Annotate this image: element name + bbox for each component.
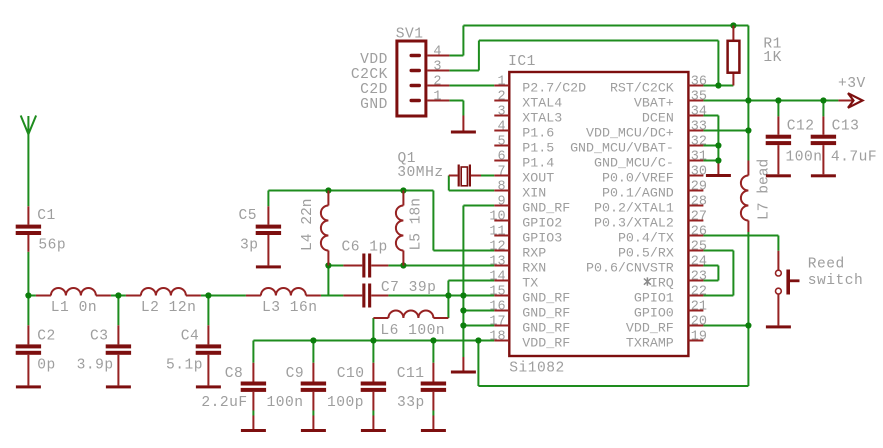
svg-text:TX: TX xyxy=(522,275,538,290)
svg-text:C2CK: C2CK xyxy=(351,67,388,83)
svg-text:3p: 3p xyxy=(240,238,259,254)
svg-text:GPIO2: GPIO2 xyxy=(522,215,562,230)
svg-text:2: 2 xyxy=(433,75,441,90)
svg-text:C13: C13 xyxy=(832,119,860,135)
svg-text:L4 22n: L4 22n xyxy=(300,198,316,251)
svg-text:16: 16 xyxy=(489,300,505,315)
svg-text:L2 12n: L2 12n xyxy=(141,300,197,316)
svg-text:DCEN: DCEN xyxy=(642,110,674,125)
svg-text:3: 3 xyxy=(433,60,441,75)
svg-text:0p: 0p xyxy=(37,358,56,374)
svg-text:23: 23 xyxy=(691,270,707,285)
svg-text:15: 15 xyxy=(489,285,505,300)
svg-text:C1: C1 xyxy=(37,208,56,224)
svg-text:18: 18 xyxy=(489,330,505,345)
svg-text:L6 100n: L6 100n xyxy=(380,323,445,339)
svg-text:IRQ: IRQ xyxy=(650,275,674,290)
svg-text:1: 1 xyxy=(433,90,441,105)
svg-text:6: 6 xyxy=(497,150,505,165)
svg-text:GND_RF: GND_RF xyxy=(522,305,570,320)
svg-text:GND: GND xyxy=(360,97,388,113)
svg-text:P1.4: P1.4 xyxy=(522,155,554,170)
svg-text:P0.0/VREF: P0.0/VREF xyxy=(602,170,674,185)
svg-text:RXP: RXP xyxy=(522,245,546,260)
svg-text:7: 7 xyxy=(497,165,505,180)
svg-text:17: 17 xyxy=(489,315,505,330)
svg-text:29: 29 xyxy=(691,180,707,195)
svg-text:C12: C12 xyxy=(787,119,815,135)
svg-text:C10: C10 xyxy=(337,366,365,382)
svg-text:GND_RF: GND_RF xyxy=(522,290,570,305)
svg-text:RXN: RXN xyxy=(522,260,546,275)
svg-text:11: 11 xyxy=(489,225,505,240)
svg-text:P0.3/XTAL2: P0.3/XTAL2 xyxy=(594,215,674,230)
svg-text:IC1: IC1 xyxy=(508,54,536,70)
svg-text:C8: C8 xyxy=(225,366,244,382)
svg-text:4: 4 xyxy=(433,45,441,60)
svg-text:VDD: VDD xyxy=(360,52,388,68)
svg-text:XTAL3: XTAL3 xyxy=(522,110,562,125)
svg-text:P1.5: P1.5 xyxy=(522,140,554,155)
svg-text:14: 14 xyxy=(489,270,505,285)
svg-text:P0.5/RX: P0.5/RX xyxy=(618,245,674,260)
svg-text:RST/C2CK: RST/C2CK xyxy=(610,80,674,95)
svg-text:32: 32 xyxy=(691,135,707,150)
svg-text:4: 4 xyxy=(497,120,505,135)
svg-text:GPIO0: GPIO0 xyxy=(634,305,674,320)
svg-text:+3V: +3V xyxy=(838,76,866,92)
svg-text:19: 19 xyxy=(691,330,707,345)
svg-text:100n: 100n xyxy=(267,395,304,411)
svg-text:P1.6: P1.6 xyxy=(522,125,554,140)
svg-text:30: 30 xyxy=(691,165,707,180)
svg-text:1K: 1K xyxy=(763,50,782,66)
svg-text:GND_MCU/VBAT-: GND_MCU/VBAT- xyxy=(570,140,674,155)
svg-text:XTAL4: XTAL4 xyxy=(522,95,562,110)
svg-text:4.7uF: 4.7uF xyxy=(831,149,877,165)
svg-text:56p: 56p xyxy=(38,238,66,254)
svg-text:Si1082: Si1082 xyxy=(509,360,565,376)
svg-text:8: 8 xyxy=(497,180,505,195)
svg-text:TXRAMP: TXRAMP xyxy=(626,335,674,350)
svg-text:25: 25 xyxy=(691,240,707,255)
svg-text:24: 24 xyxy=(691,255,707,270)
svg-text:P0.2/XTAL1: P0.2/XTAL1 xyxy=(594,200,674,215)
svg-text:5: 5 xyxy=(497,135,505,150)
svg-text:1: 1 xyxy=(497,75,505,90)
svg-text:34: 34 xyxy=(691,105,707,120)
svg-text:20: 20 xyxy=(691,315,707,330)
svg-text:30MHz: 30MHz xyxy=(397,165,443,181)
svg-text:3: 3 xyxy=(497,105,505,120)
svg-text:P2.7/C2D: P2.7/C2D xyxy=(522,80,586,95)
svg-text:100n: 100n xyxy=(786,149,823,165)
svg-text:GND_RF: GND_RF xyxy=(522,200,570,215)
svg-text:L7 bead: L7 bead xyxy=(757,159,773,220)
svg-text:P0.4/TX: P0.4/TX xyxy=(618,230,674,245)
svg-text:switch: switch xyxy=(808,273,864,289)
svg-text:C9: C9 xyxy=(286,366,305,382)
svg-text:35: 35 xyxy=(691,90,707,105)
svg-text:33: 33 xyxy=(691,120,707,135)
svg-text:22: 22 xyxy=(691,285,707,300)
svg-text:VDD_RF: VDD_RF xyxy=(522,335,570,350)
svg-text:9: 9 xyxy=(497,195,505,210)
svg-text:C6 1p: C6 1p xyxy=(342,239,388,255)
svg-text:XIN: XIN xyxy=(522,185,546,200)
svg-text:36: 36 xyxy=(691,75,707,90)
svg-text:27: 27 xyxy=(691,210,707,225)
svg-text:28: 28 xyxy=(691,195,707,210)
svg-text:GPIO1: GPIO1 xyxy=(634,290,674,305)
svg-text:26: 26 xyxy=(691,225,707,240)
svg-text:Reed: Reed xyxy=(808,257,845,273)
svg-text:L3 16n: L3 16n xyxy=(262,300,318,316)
svg-text:2.2uF: 2.2uF xyxy=(201,395,247,411)
svg-text:C11: C11 xyxy=(397,366,425,382)
svg-text:VDD_MCU/DC+: VDD_MCU/DC+ xyxy=(586,125,674,140)
svg-text:P0.6/CNVSTR: P0.6/CNVSTR xyxy=(586,260,674,275)
svg-text:GND_RF: GND_RF xyxy=(522,320,570,335)
svg-text:C3: C3 xyxy=(90,328,109,344)
svg-text:VBAT+: VBAT+ xyxy=(634,95,674,110)
svg-text:C7 39p: C7 39p xyxy=(381,280,437,296)
svg-text:C5: C5 xyxy=(239,208,258,224)
svg-text:L5 18n: L5 18n xyxy=(409,198,425,251)
svg-text:31: 31 xyxy=(691,150,707,165)
svg-text:12: 12 xyxy=(489,240,505,255)
svg-text:VDD_RF: VDD_RF xyxy=(626,320,674,335)
svg-text:L1 0n: L1 0n xyxy=(51,300,97,316)
svg-text:GND_MCU/C-: GND_MCU/C- xyxy=(594,155,674,170)
svg-text:5.1p: 5.1p xyxy=(166,358,203,374)
svg-text:3.9p: 3.9p xyxy=(77,358,114,374)
svg-text:GPIO3: GPIO3 xyxy=(522,230,562,245)
svg-text:SV1: SV1 xyxy=(396,27,424,43)
svg-text:C2D: C2D xyxy=(360,82,388,98)
svg-text:C2: C2 xyxy=(37,328,56,344)
svg-text:21: 21 xyxy=(691,300,707,315)
svg-text:2: 2 xyxy=(497,90,505,105)
svg-text:C4: C4 xyxy=(181,328,200,344)
svg-text:13: 13 xyxy=(489,255,505,270)
svg-text:100p: 100p xyxy=(327,395,364,411)
svg-text:33p: 33p xyxy=(397,395,425,411)
svg-text:10: 10 xyxy=(489,210,505,225)
svg-text:P0.1/AGND: P0.1/AGND xyxy=(602,185,674,200)
svg-text:XOUT: XOUT xyxy=(522,170,554,185)
